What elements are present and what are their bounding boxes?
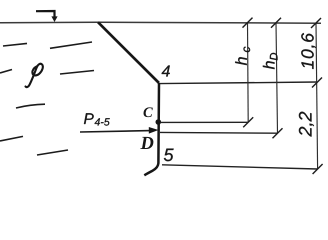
force line P4-5 bbox=[80, 131, 151, 132]
tick at top of h_D bbox=[271, 18, 281, 28]
dimension line right (10,6 / 2,2) bbox=[316, 23, 318, 169]
label 5 bbox=[164, 149, 174, 162]
dimension line h_D bbox=[276, 23, 278, 134]
water dash 1 bbox=[3, 43, 27, 46]
label 10,6 (rotated) bbox=[301, 33, 315, 69]
water dash 7 bbox=[37, 150, 68, 155]
level line from D bbox=[160, 131, 278, 134]
tick at right line bottom bbox=[313, 164, 323, 174]
tick at right line level 4 bbox=[312, 78, 322, 88]
level line from C bbox=[161, 121, 248, 123]
label C bbox=[144, 107, 153, 117]
node C dot bbox=[156, 119, 162, 125]
label 4 bbox=[162, 66, 170, 77]
tick at top of h_c bbox=[243, 18, 253, 28]
label P4-5 bbox=[84, 113, 94, 124]
label rho (density) bbox=[26, 64, 43, 87]
label h_c (rotated) bbox=[235, 47, 250, 66]
tick at top of right line bbox=[311, 18, 321, 28]
tick at bottom of h_c bbox=[243, 117, 253, 127]
label 2,2 (rotated) bbox=[299, 112, 314, 137]
label h_D (rotated) bbox=[263, 53, 278, 69]
tick at bottom of h_D bbox=[273, 128, 283, 138]
dimension line h_c bbox=[247, 23, 250, 123]
level line from point 4 bbox=[160, 82, 317, 84]
slope face (embankment) bbox=[98, 22, 159, 83]
wall 4-5 bbox=[144, 83, 159, 175]
water dash 4 bbox=[60, 71, 94, 75]
water dash 3 bbox=[0, 70, 12, 74]
arrowhead of P4-5 bbox=[149, 127, 159, 134]
bottom bed line bbox=[162, 165, 318, 169]
water dash 6 bbox=[0, 136, 23, 141]
water level marker arrow bbox=[36, 11, 55, 18]
water dash 2 bbox=[50, 42, 92, 48]
label D bbox=[140, 137, 153, 149]
water surface line bbox=[0, 22, 321, 23]
water dash 5 bbox=[16, 104, 45, 108]
